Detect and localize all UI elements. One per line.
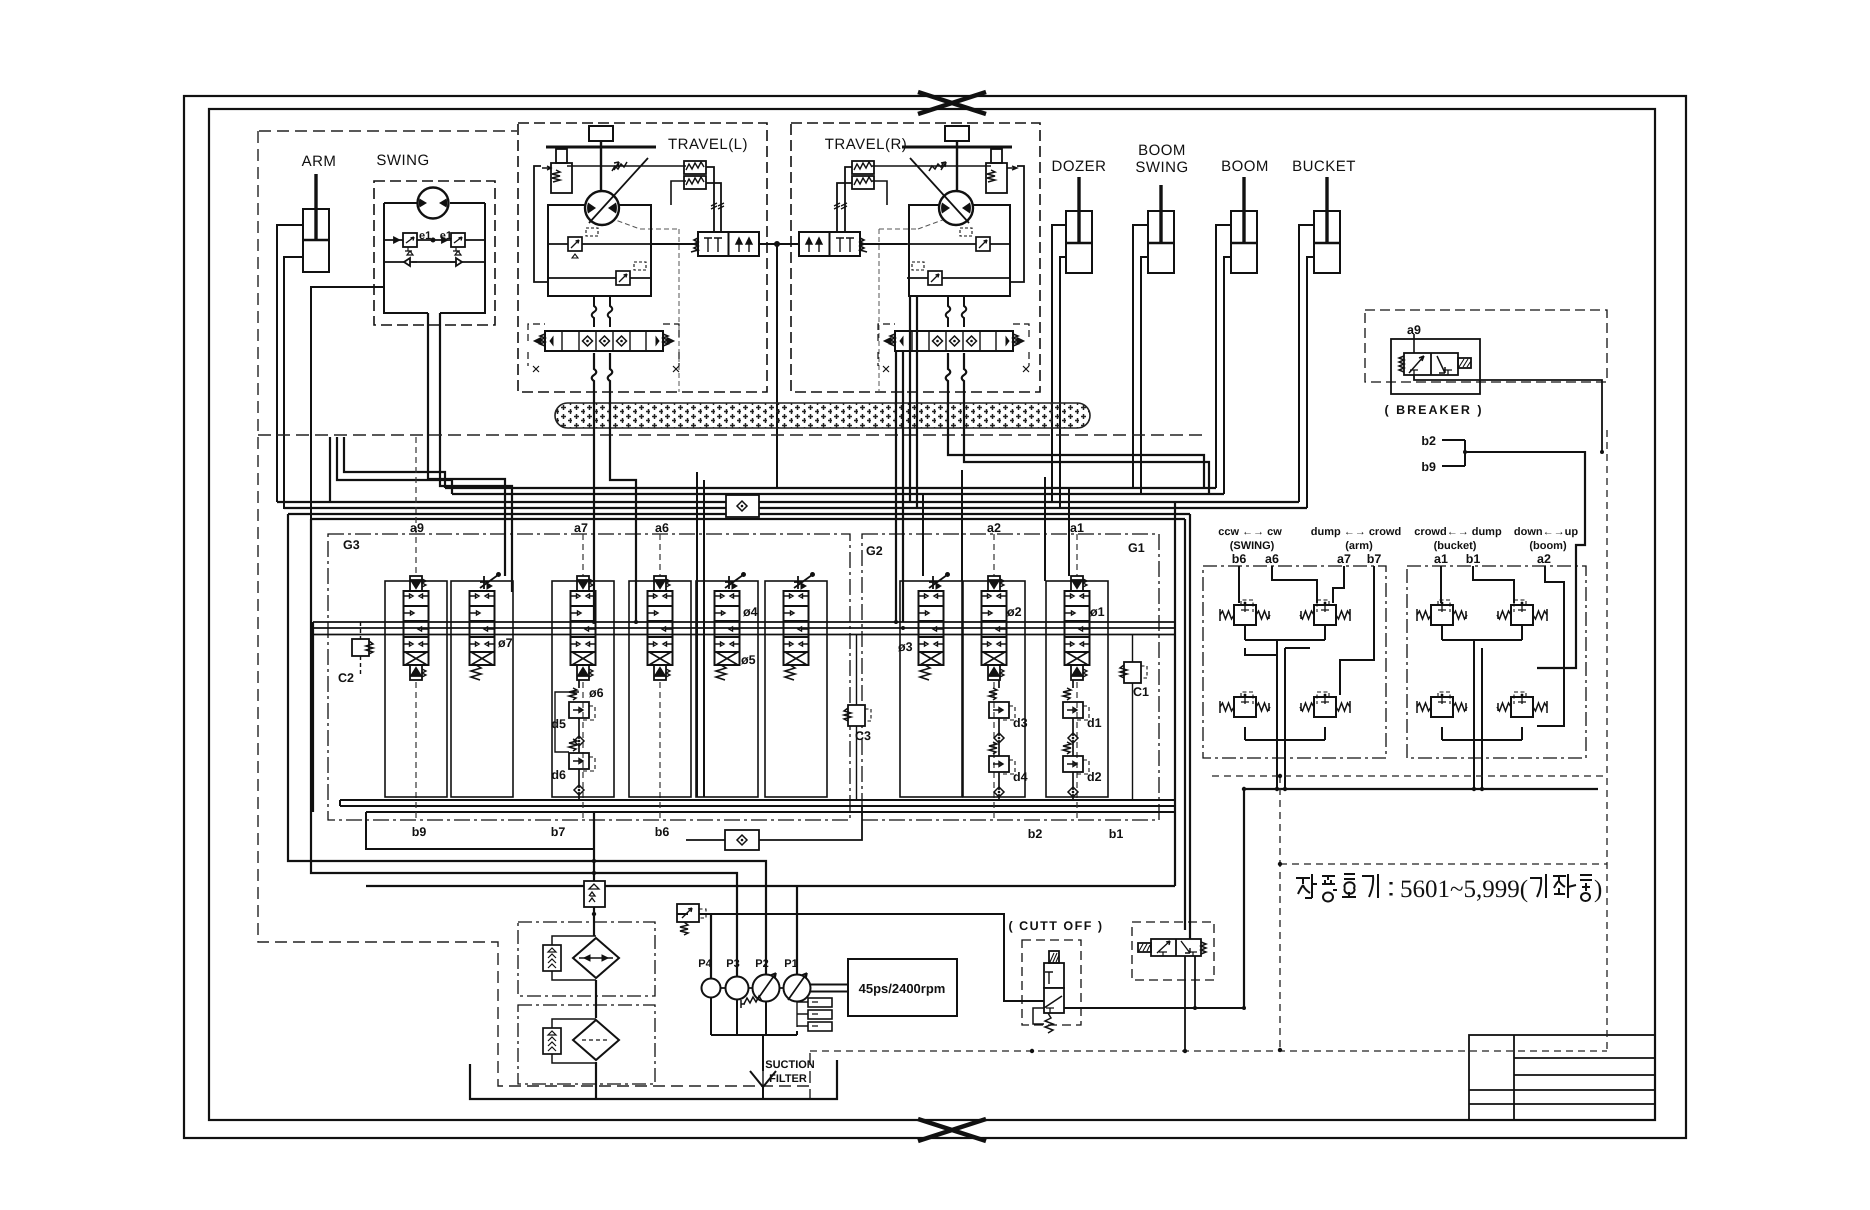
svg-text:( CUTT OFF ): ( CUTT OFF ) bbox=[1008, 919, 1103, 933]
wire ARM ports bbox=[277, 225, 303, 509]
travel L relief r1 bbox=[568, 228, 598, 258]
wire F2 to tank bus bbox=[595, 1062, 597, 1099]
svg-text:DOZER: DOZER bbox=[1052, 158, 1107, 175]
bottom fold mark bbox=[918, 1119, 986, 1141]
wire a6 drop bbox=[1272, 566, 1317, 603]
svg-text:( BREAKER ): ( BREAKER ) bbox=[1384, 403, 1483, 417]
wire right long drops bbox=[1185, 514, 1244, 1008]
svg-text:SWING: SWING bbox=[376, 152, 429, 169]
travel L inner box bbox=[548, 205, 651, 296]
wire travel R outlet runs bbox=[896, 296, 1209, 622]
wire DOZER ports bbox=[1052, 225, 1066, 508]
svg-text:(bucket): (bucket) bbox=[1434, 540, 1477, 552]
outer border frame bbox=[184, 96, 1686, 1138]
svg-text:b6: b6 bbox=[1232, 552, 1247, 566]
svg-text:a9: a9 bbox=[410, 521, 424, 535]
svg-text:ARM: ARM bbox=[302, 153, 337, 170]
svg-text:a2: a2 bbox=[1537, 552, 1551, 566]
pilot box left dash-dot bbox=[1203, 566, 1386, 758]
wire a7 drop bbox=[1333, 566, 1344, 603]
wire swing left port bbox=[311, 287, 384, 519]
wire strainer to bus bbox=[762, 1087, 764, 1099]
svg-text:b1: b1 bbox=[1466, 552, 1481, 566]
pump P1 bbox=[784, 973, 811, 1002]
spool a9 (swing) bbox=[404, 576, 429, 680]
travel R relief r1 bbox=[960, 228, 990, 251]
breaker solenoid valve bbox=[1399, 334, 1471, 375]
filter F1 bbox=[573, 938, 619, 978]
wire travel L line B bbox=[548, 277, 651, 279]
travel L dashed enclosure bbox=[518, 123, 767, 392]
travel L pilot spring boxes bbox=[684, 161, 706, 189]
bypass relief F1 bbox=[543, 936, 596, 980]
wire a1 drop bbox=[1440, 566, 1442, 603]
wire b1 drop bbox=[1473, 566, 1514, 603]
wire travel L box outlets with hose break bbox=[592, 296, 613, 327]
svg-text:FILTER: FILTER bbox=[769, 1073, 807, 1085]
wire tank to motor R bbox=[956, 141, 958, 192]
svg-text:a2: a2 bbox=[987, 521, 1001, 535]
svg-text:G1: G1 bbox=[1128, 541, 1145, 555]
travel L pilot spring symbol bbox=[612, 162, 627, 171]
reducing valve d4 bbox=[989, 742, 1015, 774]
svg-text:a7: a7 bbox=[1337, 552, 1351, 566]
pump P3 bbox=[726, 977, 749, 1000]
return filter assembly upper bbox=[518, 922, 655, 996]
cylinder BUCKET bbox=[1314, 177, 1340, 273]
svg-text:b9: b9 bbox=[412, 825, 427, 839]
wire a2 drop bbox=[1537, 566, 1564, 726]
wire pump couplings bbox=[720, 987, 784, 989]
svg-text:ø5: ø5 bbox=[741, 653, 756, 667]
wire swing check line bbox=[384, 258, 485, 266]
wire pump top manifold bbox=[677, 914, 1044, 1001]
cutoff valve bbox=[1033, 951, 1064, 1033]
svg-text:C1: C1 bbox=[1133, 685, 1149, 699]
svg-text:d1: d1 bbox=[1087, 716, 1102, 730]
svg-text:a7: a7 bbox=[574, 521, 588, 535]
svg-text:(boom): (boom) bbox=[1529, 540, 1567, 552]
G2 section dash-dot box bbox=[862, 534, 1159, 820]
travel L brake cylinder bbox=[542, 149, 572, 193]
svg-text:b6: b6 bbox=[655, 825, 670, 839]
wire BOOM SWING ports bbox=[1133, 225, 1148, 494]
svg-text:ccw ←→ cw: ccw ←→ cw bbox=[1218, 526, 1282, 538]
travel L lower valve bank bbox=[534, 331, 674, 351]
swing block inner box bbox=[384, 203, 485, 313]
svg-text:d5: d5 bbox=[551, 717, 566, 731]
wire motor box to valve bbox=[651, 243, 698, 245]
reducing valve d1 bbox=[1063, 688, 1089, 720]
pilot valve arm-R bbox=[1300, 600, 1350, 625]
wire main pilot bundle bbox=[277, 488, 1307, 519]
spool phi3 (travel R) bbox=[919, 573, 950, 680]
svg-text:(SWING): (SWING) bbox=[1230, 540, 1275, 552]
check valve upper bbox=[726, 495, 759, 517]
wire breaker outlet bbox=[1414, 375, 1602, 452]
wire b7 drop bbox=[1340, 566, 1374, 695]
reducing valve d2 bbox=[1063, 742, 1089, 774]
G3 section dash-dot box bbox=[328, 534, 850, 820]
wire travel L line A bbox=[548, 243, 651, 245]
glyph ho bbox=[1342, 874, 1356, 897]
glyph gi bbox=[1362, 874, 1378, 898]
relief valve e1 (left) bbox=[403, 233, 417, 255]
cylinder BOOM bbox=[1231, 177, 1257, 273]
pilot centerline a2 bbox=[993, 534, 995, 820]
check valve lower bbox=[725, 830, 759, 850]
wire pump suction manifold bbox=[711, 997, 797, 1071]
wire d3-d4 column bbox=[998, 680, 1000, 800]
solenoid valve SV bbox=[1138, 939, 1206, 956]
svg-text:d2: d2 bbox=[1087, 770, 1102, 784]
spool a1 (boom) bbox=[1065, 576, 1090, 680]
travel R valve bank dashed surround bbox=[878, 324, 1029, 366]
spool a7 (arm) bbox=[571, 576, 596, 680]
relief valve e1 (right) bbox=[451, 233, 465, 255]
spool a6 (boom swing) bbox=[648, 576, 673, 680]
wire spring boxes to valve R bbox=[834, 167, 852, 232]
wire pilot return bus bbox=[1244, 451, 1598, 789]
svg-text:down←→up: down←→up bbox=[1514, 526, 1578, 538]
wire swing relief line bbox=[384, 238, 485, 243]
travel L relief r2 bbox=[616, 262, 646, 285]
wire travel R line B bbox=[907, 277, 1010, 279]
cylinder ARM bbox=[303, 174, 329, 272]
cylinder BOOM SWING bbox=[1148, 185, 1174, 273]
glyph yong bbox=[1322, 876, 1337, 902]
solenoid valve dashed box bbox=[1132, 922, 1214, 980]
glyph jon bbox=[1553, 874, 1576, 898]
svg-text:dump ←→ crowd: dump ←→ crowd bbox=[1311, 526, 1401, 538]
svg-text:ø6: ø6 bbox=[589, 686, 604, 700]
svg-text:BOOM: BOOM bbox=[1138, 142, 1186, 159]
wire b6 drop bbox=[1238, 566, 1240, 603]
MCV spool channel frames bbox=[385, 581, 1108, 797]
svg-text:ø4: ø4 bbox=[743, 605, 758, 619]
svg-text:): ) bbox=[1594, 876, 1602, 903]
pump P2 bbox=[753, 973, 780, 1002]
MCV bus lines bbox=[313, 622, 1175, 635]
pilot centerline a1 bbox=[1076, 534, 1078, 820]
svg-text:C3: C3 bbox=[855, 729, 871, 743]
svg-text:TRAVEL(R): TRAVEL(R) bbox=[825, 136, 908, 153]
breaker solid box bbox=[1391, 339, 1480, 394]
bypass relief F2 bbox=[543, 1019, 596, 1063]
svg-text:a1: a1 bbox=[1070, 521, 1084, 535]
svg-text:d4: d4 bbox=[1013, 770, 1028, 784]
pilot ports stack bbox=[797, 998, 832, 1031]
wire BOOM ports bbox=[1216, 225, 1231, 494]
wire motor box to valve R bbox=[860, 243, 907, 245]
wire tank to motor bbox=[600, 141, 602, 192]
wire BUCKET ports bbox=[1299, 225, 1314, 508]
breaker dashed enclosure bbox=[1365, 310, 1607, 382]
svg-text:a6: a6 bbox=[655, 521, 669, 535]
spool phi4 (dozer) bbox=[715, 573, 746, 680]
svg-text:C2: C2 bbox=[338, 671, 354, 685]
tank bus line bbox=[470, 1060, 837, 1099]
pump P4 bbox=[702, 979, 721, 998]
wire spring boxes to valve bbox=[706, 167, 724, 232]
cutoff valve dashed box bbox=[1022, 940, 1081, 1025]
return filter assembly lower bbox=[518, 1005, 655, 1084]
relief C2 bbox=[352, 622, 373, 676]
swing block dashed enclosure bbox=[374, 181, 495, 325]
wire cutoff to drain bus bbox=[1064, 1007, 1244, 1009]
pilot centerline a6 bbox=[659, 534, 661, 820]
pilot centerline a7 bbox=[582, 534, 584, 820]
svg-text:P1: P1 bbox=[784, 958, 797, 970]
travel R top tank bbox=[945, 126, 969, 141]
junction dots pilot bbox=[1242, 787, 1484, 791]
wire swing-arm channel verticals bbox=[330, 437, 452, 502]
travel R dashed enclosure bbox=[791, 123, 1040, 392]
pilot relief valve bbox=[677, 904, 706, 935]
svg-text:d6: d6 bbox=[551, 768, 566, 782]
MCV housing right walls bbox=[366, 502, 1175, 886]
pilot valve swing-R bbox=[1220, 692, 1270, 717]
wire travel R line A bbox=[907, 243, 1010, 245]
travel L brake shuttle line bbox=[534, 166, 548, 282]
colon bbox=[1389, 882, 1392, 896]
svg-text:b9: b9 bbox=[1421, 460, 1436, 474]
svg-text:P3: P3 bbox=[726, 958, 739, 970]
wire travel L-R crossover bbox=[759, 242, 799, 488]
pump drain spring bbox=[741, 996, 762, 1008]
travel L crossbar bbox=[546, 146, 656, 149]
pilot valve bucket-L bbox=[1417, 600, 1467, 625]
svg-text:SUCTION: SUCTION bbox=[765, 1059, 815, 1071]
svg-text:b1: b1 bbox=[1109, 827, 1124, 841]
svg-text:a6: a6 bbox=[1265, 552, 1279, 566]
travel R pilot spring boxes bbox=[852, 161, 874, 189]
title block table bbox=[1469, 1035, 1655, 1120]
wire solenoid drops bbox=[1185, 956, 1195, 1051]
svg-text:crowd←→ dump: crowd←→ dump bbox=[1414, 526, 1502, 538]
svg-text:ø3: ø3 bbox=[898, 640, 913, 654]
swing motor M1 bbox=[418, 188, 449, 219]
travel R inner box bbox=[909, 205, 1010, 296]
reducing valve d3 bbox=[989, 688, 1015, 720]
MCV bottom bus lines bbox=[340, 800, 1174, 849]
pilot valve boom-R bbox=[1497, 600, 1547, 625]
travel L motor M2 bbox=[585, 158, 648, 225]
travel R lower valve bank bbox=[884, 331, 1024, 351]
relief C3 bbox=[844, 634, 871, 800]
engine spec box bbox=[848, 959, 957, 1016]
travel R counterbalance valve bbox=[799, 232, 867, 256]
travel L counterbalance valve bbox=[691, 232, 759, 256]
suction strainer bbox=[750, 1071, 776, 1087]
glyph jeok bbox=[1296, 874, 1317, 898]
svg-text:b2: b2 bbox=[1421, 434, 1436, 448]
pilot valve swing-L bbox=[1220, 600, 1270, 625]
svg-text:b7: b7 bbox=[1367, 552, 1382, 566]
wire MCV pilot drops bbox=[697, 470, 1069, 797]
wire d5-d6 column bbox=[555, 680, 579, 800]
label korean suffix bbox=[1530, 874, 1592, 901]
svg-text:BUCKET: BUCKET bbox=[1292, 158, 1356, 175]
svg-text:G2: G2 bbox=[866, 544, 883, 558]
travel R brake shuttle line bbox=[1010, 166, 1024, 282]
svg-text:ø2: ø2 bbox=[1007, 605, 1022, 619]
travel R pilot spring symbol bbox=[929, 162, 946, 171]
pilot valve boom-L bbox=[1497, 692, 1547, 717]
travel L valve bank dashed surround bbox=[528, 324, 679, 366]
cylinder DOZER bbox=[1066, 177, 1092, 273]
svg-text:ø7: ø7 bbox=[498, 636, 513, 650]
svg-text:b7: b7 bbox=[551, 825, 566, 839]
pilot centerline a9 bbox=[415, 437, 417, 820]
wire P1 to engine box bbox=[810, 985, 848, 992]
relief C1 bbox=[1120, 634, 1147, 800]
svg-text:TRAVEL(L): TRAVEL(L) bbox=[668, 136, 748, 153]
wire travel R box outlets with hose break bbox=[946, 296, 967, 327]
svg-text:b2: b2 bbox=[1028, 827, 1043, 841]
inline check valve above filters bbox=[584, 881, 605, 907]
wire right box manifold bbox=[1442, 625, 1522, 789]
pilot valve arm-L bbox=[1300, 692, 1350, 717]
inner border frame bbox=[209, 109, 1655, 1120]
travel R motor M3 bbox=[910, 158, 973, 225]
filter F2 bbox=[573, 1020, 619, 1060]
spool phi5 bbox=[784, 573, 815, 680]
travel R relief r2 bbox=[912, 262, 942, 285]
wire F1 to F2 bbox=[595, 980, 597, 1018]
svg-text:d3: d3 bbox=[1013, 716, 1028, 730]
wire lower check run bbox=[686, 806, 862, 840]
spool a2 (bucket) bbox=[982, 576, 1007, 680]
glyph gi2 bbox=[1530, 874, 1546, 898]
svg-text:ø1: ø1 bbox=[1090, 605, 1105, 619]
reducing valve d6 bbox=[569, 739, 595, 771]
wire b2 b9 bracket bbox=[1442, 440, 1586, 466]
wire swing outlet pair bbox=[428, 313, 512, 592]
glyph hyeong bbox=[1580, 875, 1592, 901]
hatched hose oval bbox=[555, 403, 1090, 428]
label part number korean bbox=[1296, 874, 1391, 902]
svg-text:SWING: SWING bbox=[1135, 159, 1188, 176]
svg-text:45ps/2400rpm: 45ps/2400rpm bbox=[859, 981, 946, 996]
svg-text:a1: a1 bbox=[1434, 552, 1448, 566]
svg-text:P4: P4 bbox=[698, 958, 712, 970]
pilot valve bucket-R bbox=[1417, 692, 1467, 717]
reducing valve d5 bbox=[569, 688, 595, 720]
long dashed boundary line bbox=[258, 434, 1205, 436]
travel R crossbar bbox=[902, 146, 1012, 149]
svg-text:BOOM: BOOM bbox=[1221, 158, 1269, 175]
wire travel L outlet runs bbox=[592, 353, 636, 622]
svg-text:P2: P2 bbox=[755, 958, 768, 970]
wire MCV to pump feed lines bbox=[288, 514, 797, 979]
travel R brake cylinder bbox=[986, 149, 1017, 193]
MCV housing left wall bbox=[312, 622, 314, 812]
wire left box manifold bbox=[1245, 625, 1325, 789]
junction dots MCV bbox=[592, 620, 905, 630]
wire d1-d2 column bbox=[1072, 680, 1074, 800]
pilot box right dash-dot bbox=[1407, 566, 1586, 758]
dashed region boundary left bbox=[258, 131, 810, 1099]
svg-text:(arm): (arm) bbox=[1345, 540, 1373, 552]
spool phi7 (travel L) bbox=[470, 573, 501, 680]
travel L top tank bbox=[589, 126, 613, 141]
top fold mark bbox=[918, 92, 986, 114]
svg-text:G3: G3 bbox=[343, 538, 360, 552]
dashed pilot drain lines bbox=[810, 430, 1607, 1051]
svg-text:5601~5,999(: 5601~5,999( bbox=[1400, 876, 1528, 903]
